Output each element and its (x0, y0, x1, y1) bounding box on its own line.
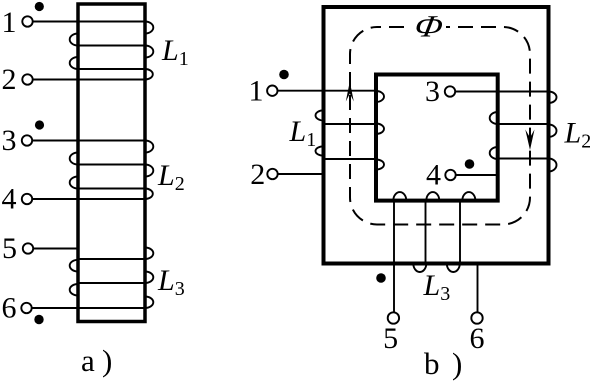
label: flux phi (b) (412, 10, 446, 44)
svg-text:1: 1 (249, 75, 264, 108)
wire: terminal 5 lead (33, 248, 78, 250)
svg-text:Φ: Φ (412, 10, 446, 44)
wire: L3 right arc 1 (145, 248, 153, 260)
svg-text:L3: L3 (423, 269, 451, 305)
wire: L1 right arc 3 (145, 69, 153, 80)
terminal 6 node circle (b) (471, 312, 482, 323)
wire: L2b front turn 3 (498, 158, 549, 160)
wire: L2b front turn 2 (498, 123, 549, 125)
label: terminal 6 (a) (2, 292, 17, 325)
wire: L2b outer arc 2 (549, 125, 557, 138)
wire: L3 right arc 2 (145, 272, 153, 284)
wire: L2 right arc 2 (145, 165, 153, 177)
polarity dot at terminal 1 (b) (279, 70, 289, 80)
svg-text:a: a (81, 343, 95, 378)
wire: L1 right arc 2 (145, 46, 153, 58)
label: terminal 2 (b) (250, 158, 265, 191)
wire: L3 left arc 1 (70, 260, 78, 272)
terminal 2 node circle (b) (267, 169, 277, 179)
inductor L1 (diagram b) winding on left leg (278, 91, 385, 174)
svg-text:): ) (102, 343, 112, 378)
inductor L3 (diagram a) winding (32, 248, 154, 309)
wire: L3 front turn 1 (78, 258, 145, 260)
wire: L1b inner arc 2 (376, 124, 384, 135)
label: sub-figure b) (424, 346, 462, 381)
wire: L1 front turn 3 (78, 68, 145, 70)
wire: terminal 4 lead (456, 174, 498, 176)
wire: L2b inner arc 1 (490, 112, 498, 124)
flux path dashed loop (diagram b) (350, 27, 530, 225)
wire: L3b bottom arc 2 (447, 264, 460, 273)
svg-text:5: 5 (2, 232, 17, 265)
terminal 2 node circle (a) (22, 74, 32, 84)
label: terminal 2 (a) (2, 63, 17, 96)
wire: L2b inner arc 2 (490, 147, 498, 159)
wire: L2 front turn 2 (78, 164, 145, 166)
label: inductor L3 (a) (157, 264, 185, 300)
svg-text:): ) (452, 346, 462, 381)
svg-text:b: b (424, 346, 440, 381)
core window / inner boundary (diagram b) (376, 75, 498, 201)
wire: L3 right arc 3 (145, 297, 153, 309)
svg-text:4: 4 (2, 183, 17, 216)
terminal 5 node circle (a) (23, 243, 33, 253)
svg-text:2: 2 (250, 158, 265, 191)
svg-text:1: 1 (2, 6, 17, 39)
wire: terminal 6 lead (477, 264, 479, 313)
wire: L1 left arc 2 (70, 57, 78, 69)
wire: L2b outer arc 3 (549, 159, 557, 172)
inductor L3 (diagram b) winding on bottom leg (393, 192, 477, 312)
wire: L3b top arc 1 (393, 192, 406, 201)
label: terminal 4 (a) (2, 183, 17, 216)
wire: terminal 3 lead (32, 140, 145, 142)
wire: terminal 5 lead (393, 201, 395, 313)
wire: terminal 6 lead (32, 307, 145, 309)
wire: L1 front turn 2 (78, 45, 145, 47)
label: inductor L1 (b) (289, 115, 317, 151)
polarity dot at terminal 3 (a) (35, 120, 44, 129)
terminal 3 node circle (a) (22, 135, 32, 145)
label: sub-figure a) (81, 343, 112, 378)
wire: terminal 4 lead (32, 198, 145, 200)
wire: terminal 2 lead (278, 173, 324, 175)
wire: L3 left arc 2 (70, 284, 78, 296)
polarity dot at terminal 5 (b) (376, 273, 386, 283)
inductor L2 (diagram b) winding on right leg (455, 92, 556, 176)
core bar (diagram a) (78, 4, 145, 322)
svg-text:6: 6 (470, 322, 485, 355)
terminal 6 node circle (a) (21, 303, 31, 313)
svg-text:L2: L2 (157, 159, 185, 195)
polarity dot at terminal 4 (b) (465, 159, 475, 169)
terminal 3 node circle (b) (445, 86, 455, 96)
flux arrow down (right leg) (525, 130, 534, 151)
wire: L2 left arc 1 (70, 153, 78, 165)
wire: L2 right arc 1 (145, 141, 153, 153)
svg-text:L1: L1 (289, 115, 317, 151)
svg-text:6: 6 (2, 292, 17, 325)
flux arrow up (left leg) (346, 82, 354, 102)
gap patch for flux label (404, 17, 446, 37)
label: terminal 1 (a) (2, 6, 17, 39)
label: inductor L2 (a) (157, 159, 185, 195)
terminal 1 node circle (a) (22, 16, 32, 26)
inductor L1 (diagram a) winding (33, 22, 154, 80)
wire: L2 front turn 3 (78, 188, 145, 190)
wire: L1 left arc 1 (70, 34, 78, 46)
wire: L3b front turn 2 (425, 201, 427, 264)
wire: terminal 3 lead (455, 91, 548, 93)
wire: L1b outer arc 1 (316, 110, 324, 120)
svg-text:L3: L3 (157, 264, 185, 300)
wire: terminal 1 lead (278, 90, 377, 92)
wire: L1b front turn 2 (324, 123, 377, 125)
inductor L2 (diagram a) winding (32, 141, 153, 200)
wire: L1b front turn 3 (324, 158, 377, 160)
svg-text:3: 3 (2, 124, 17, 157)
label: inductor L3 (b) (423, 269, 451, 305)
label: terminal 4 (b) (426, 159, 441, 192)
terminal 1 node circle (b) (267, 86, 277, 96)
polarity dot at terminal 1 (a) (35, 2, 44, 11)
label: terminal 5 (b) (383, 322, 398, 355)
terminal 4 node circle (a) (22, 194, 32, 204)
label: terminal 5 (a) (2, 232, 17, 265)
wire: terminal 1 lead (33, 21, 145, 23)
wire: L3 front turn 2 (78, 282, 145, 284)
wire: terminal 2 lead (33, 79, 145, 81)
svg-text:3: 3 (425, 75, 440, 108)
label: inductor L2 (b) (564, 117, 590, 153)
wire: L1b inner arc 1 (376, 91, 384, 102)
wire: L3b front turn 3 (459, 201, 461, 264)
terminal 4 node circle (b) (445, 170, 455, 180)
wire: L2 right arc 3 (145, 189, 153, 200)
wire: L3b bottom arc 1 (413, 264, 426, 273)
wire: L2b outer arc 1 (549, 92, 557, 104)
terminal 5 node circle (b) (388, 312, 399, 323)
label: terminal 1 (b) (249, 75, 264, 108)
label: terminal 6 (b) (470, 322, 485, 355)
core outer boundary (diagram b) (324, 7, 549, 264)
label: terminal 3 (b) (425, 75, 440, 108)
wire: L1b outer arc 2 (316, 146, 324, 155)
svg-text:5: 5 (383, 322, 398, 355)
wire: L2 left arc 2 (70, 177, 78, 189)
svg-text:4: 4 (426, 159, 441, 192)
svg-text:L1: L1 (161, 34, 189, 70)
wire: L3b top arc 2 (426, 192, 439, 201)
svg-text:2: 2 (2, 63, 17, 96)
wire: L3b top arc 3 (462, 192, 475, 201)
wire: L1b inner arc 3 (376, 160, 384, 170)
wire: L1 right arc 1 (145, 22, 153, 34)
label: terminal 3 (a) (2, 124, 17, 157)
label: inductor L1 (a) (161, 34, 189, 70)
polarity dot at terminal 6 (a) (34, 315, 43, 324)
svg-text:L2: L2 (564, 117, 590, 153)
